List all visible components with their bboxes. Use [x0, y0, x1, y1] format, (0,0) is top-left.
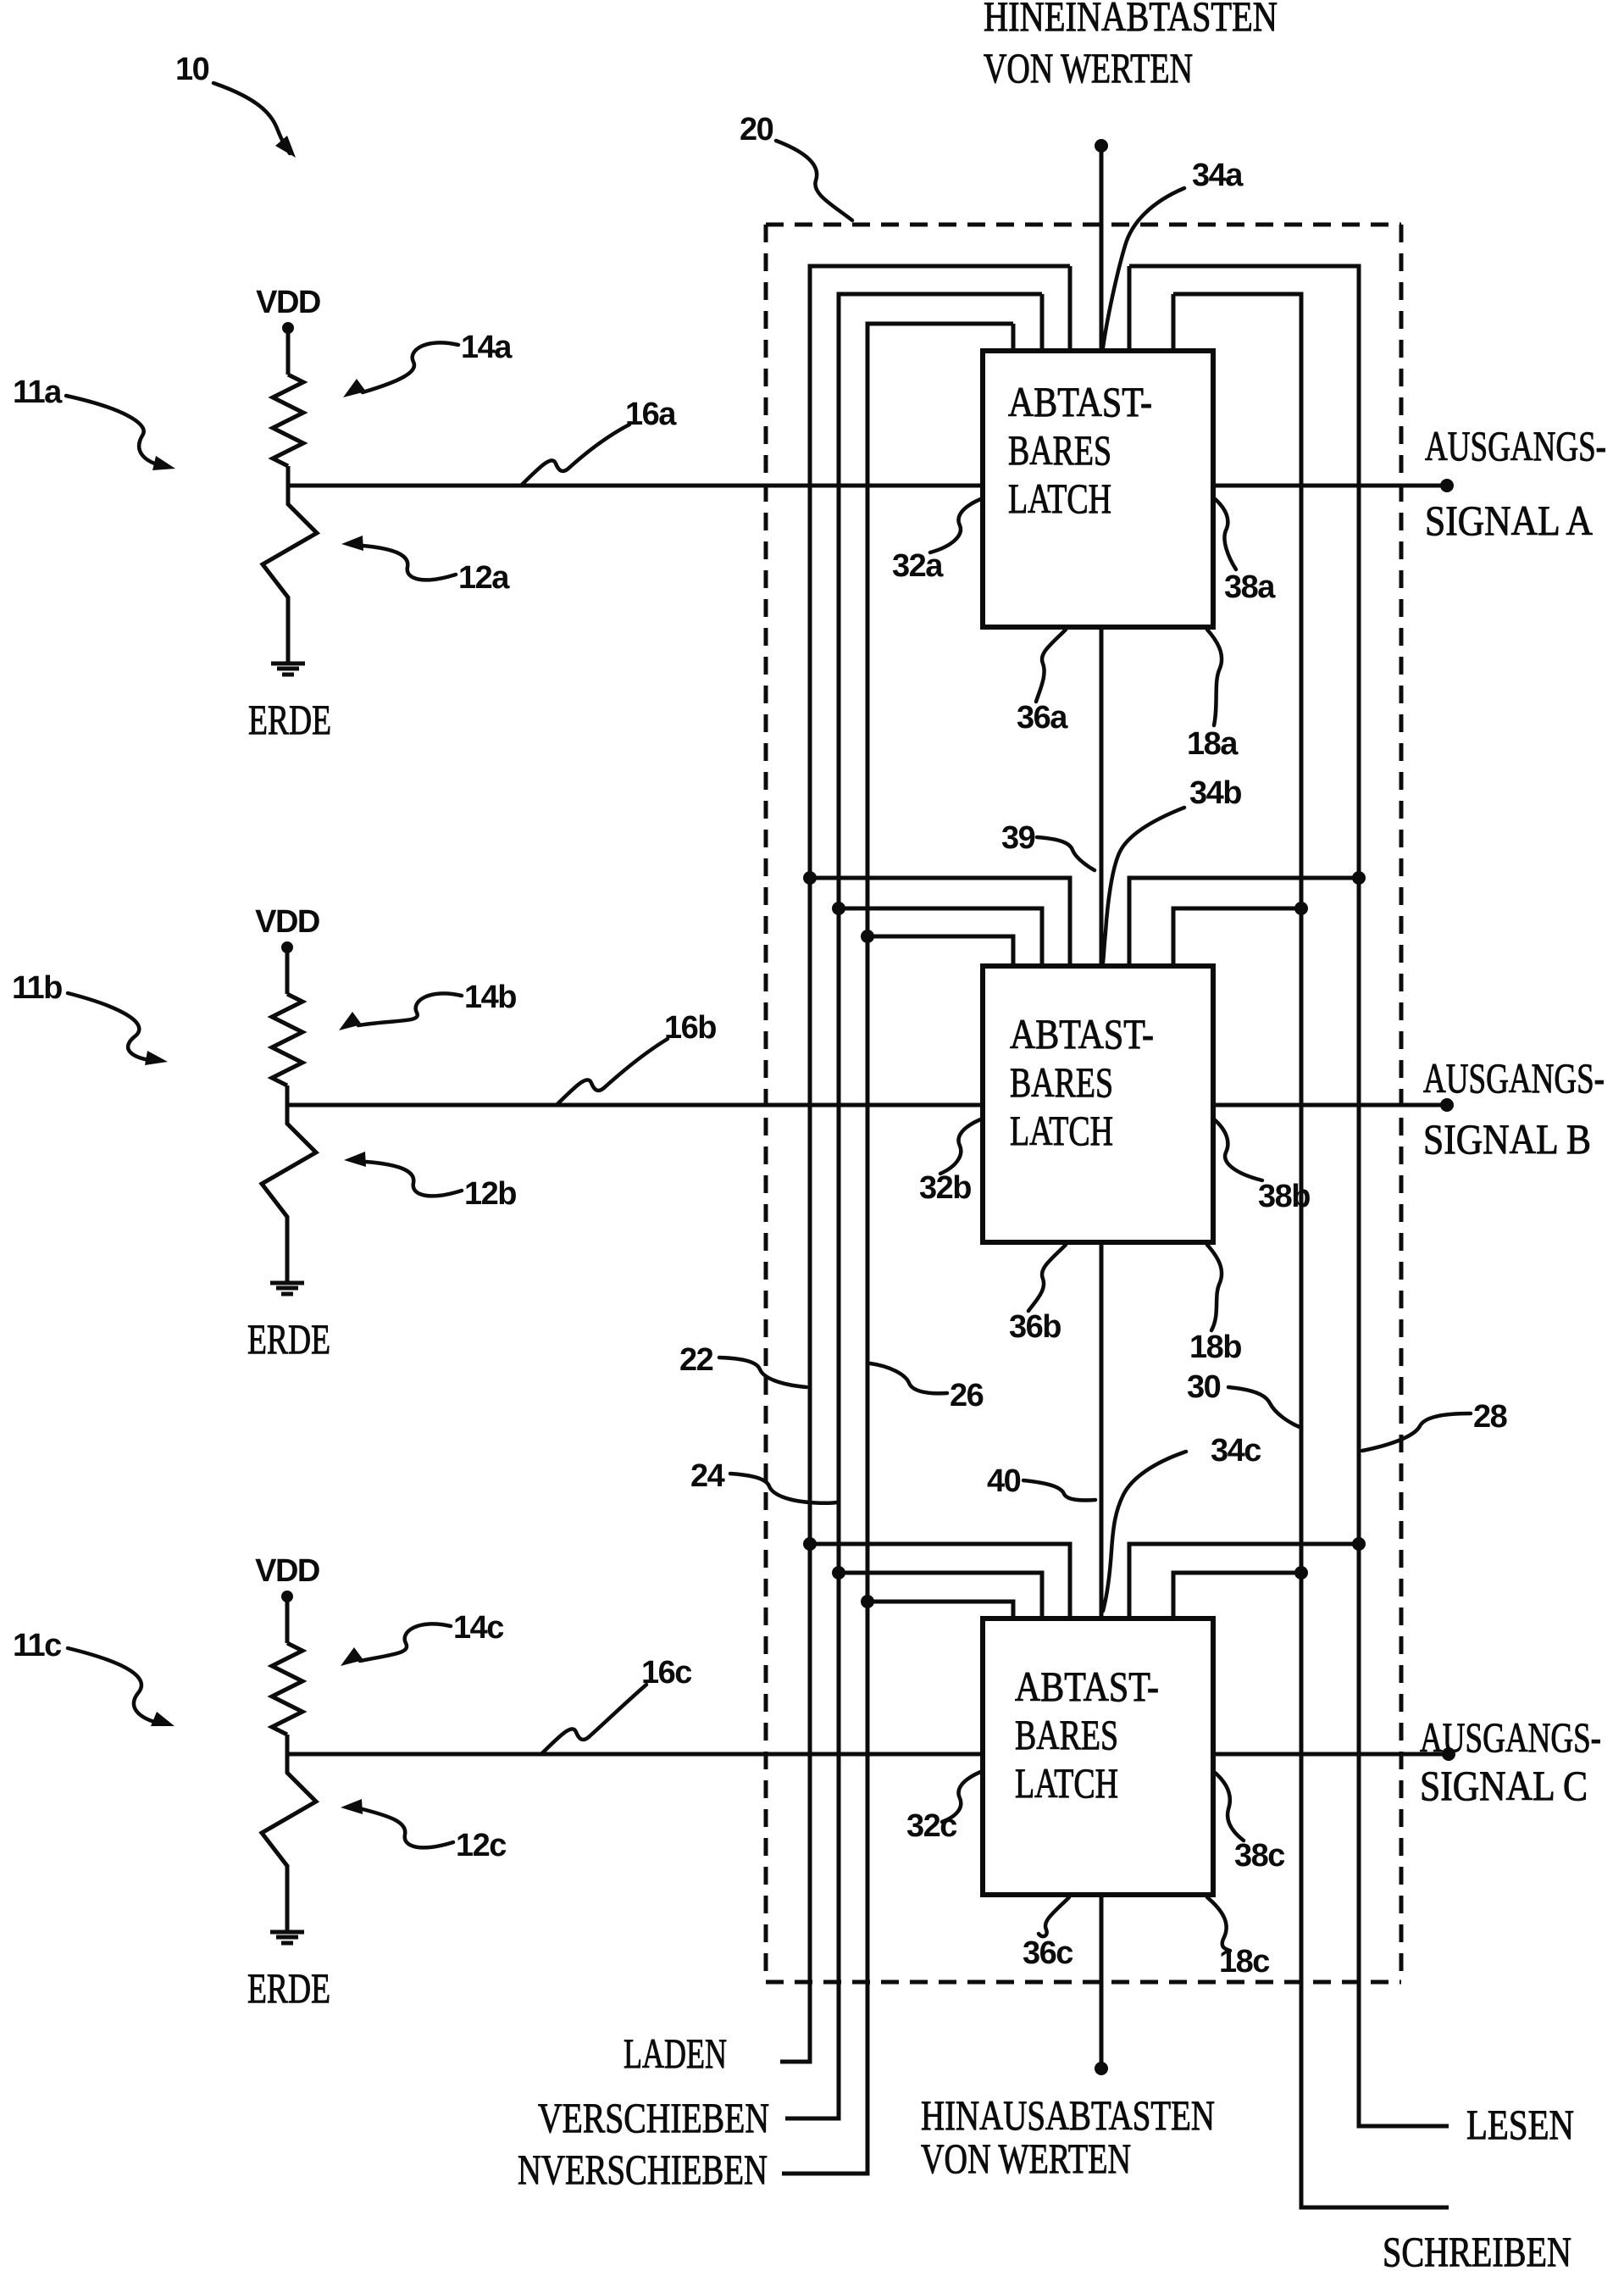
svg-text:VON WERTEN: VON WERTEN: [921, 2135, 1131, 2182]
latch U-A (scannable latch A): [983, 351, 1213, 627]
node 40 scan segment reference: [987, 1463, 1095, 1500]
svg-text:38b: 38b: [1258, 1179, 1310, 1214]
svg-text:LATCH: LATCH: [1010, 1107, 1113, 1154]
wire resistor 14b to node 16b: [285, 1085, 290, 1105]
node 24 VERSCHIEBEN line reference: [690, 1458, 837, 1503]
svg-text:VERSCHIEBEN: VERSCHIEBEN: [538, 2094, 769, 2141]
node 16a sense line reference: [522, 397, 677, 485]
node 18b latch reference: [1189, 1245, 1241, 1365]
ground symbol C: [270, 1932, 304, 1943]
svg-text:14c: 14c: [453, 1610, 504, 1646]
wire pin stub NVERSCHIEBEN to latch A: [1012, 324, 1016, 351]
latch U-C (scannable latch C): [983, 1618, 1213, 1895]
svg-text:14b: 14b: [464, 980, 516, 1015]
node junction SCHREIBEN row B: [1294, 902, 1308, 915]
svg-text:NVERSCHIEBEN: NVERSCHIEBEN: [518, 2146, 768, 2193]
svg-text:ERDE: ERDE: [248, 696, 331, 743]
svg-text:LATCH: LATCH: [1015, 1759, 1118, 1807]
svg-text:HINAUSABTASTEN: HINAUSABTASTEN: [921, 2091, 1215, 2139]
node junction VERSCHIEBEN row C: [832, 1566, 845, 1580]
wire pin 32a stub (LADEN to latch A): [1068, 266, 1073, 351]
svg-text:AUSGANGS-: AUSGANGS-: [1423, 1054, 1605, 1102]
node 38a latch output reference: [1213, 497, 1276, 605]
node 32a latch input reference: [892, 498, 983, 584]
node 12c sense-resistor reference: [341, 1799, 507, 1863]
node 12b sense-resistor reference: [344, 1152, 516, 1212]
svg-text:SIGNAL A: SIGNAL A: [1425, 497, 1593, 544]
svg-text:39: 39: [1001, 820, 1035, 856]
node junction LADEN row C: [803, 1537, 817, 1551]
latch U-B (scannable latch B): [983, 966, 1213, 1242]
node 16b sense line reference: [557, 1010, 716, 1104]
svg-text:34c: 34c: [1211, 1433, 1261, 1469]
divider 11a group: [248, 285, 331, 743]
svg-text:32b: 32b: [919, 1170, 971, 1206]
ground symbol B: [270, 1283, 304, 1294]
svg-text:LATCH: LATCH: [1008, 475, 1111, 522]
node junction SCHREIBEN row C: [1294, 1566, 1308, 1580]
node 11b divider reference: [12, 970, 168, 1065]
node 36a scan output reference: [1017, 630, 1068, 736]
svg-text:12b: 12b: [464, 1176, 516, 1212]
svg-text:32a: 32a: [892, 548, 944, 584]
node 26 NVERSCHIEBEN line reference: [870, 1363, 984, 1413]
node output A terminal: [1440, 479, 1454, 492]
node 20 latch-array reference: [740, 112, 852, 220]
wire 16b sense node B to latch B: [287, 1103, 983, 1108]
svg-text:11c: 11c: [13, 1628, 62, 1663]
wire 16c sense node C to latch C: [287, 1752, 983, 1757]
node VDD terminal C: [281, 1591, 293, 1602]
wire output signal B 38b: [1213, 1103, 1447, 1108]
wire 24 VERSCHIEBEN bus (middle left): [785, 294, 1042, 2118]
svg-text:34b: 34b: [1189, 775, 1241, 811]
svg-text:SCHREIBEN: SCHREIBEN: [1383, 2228, 1571, 2275]
wire 22 LADEN bus (outer left): [780, 266, 1070, 2062]
node 36b scan output reference: [1009, 1245, 1066, 1345]
svg-text:36a: 36a: [1017, 700, 1068, 736]
ground symbol A: [271, 664, 305, 675]
resistor 12b (sense element): [262, 1105, 316, 1281]
svg-text:ABTAST-: ABTAST-: [1015, 1663, 1159, 1710]
wire 28 LESEN bus (outer right): [1129, 266, 1449, 2126]
divider 11c group: [247, 1553, 330, 2012]
node 18a latch reference: [1187, 630, 1239, 762]
wire LADEN row to latch C: [810, 1544, 1070, 1618]
wire 26 NVERSCHIEBEN bus (inner left): [782, 324, 1013, 2174]
svg-text:16c: 16c: [641, 1655, 692, 1691]
svg-text:ABTAST-: ABTAST-: [1008, 378, 1152, 425]
node 34a scan-in reference: [1103, 158, 1244, 347]
svg-text:12c: 12c: [456, 1828, 507, 1863]
svg-text:18b: 18b: [1189, 1330, 1241, 1365]
svg-text:20: 20: [740, 112, 773, 147]
node VDD terminal A: [282, 322, 294, 334]
svg-text:BARES: BARES: [1008, 426, 1111, 474]
svg-text:HINEINABTASTEN: HINEINABTASTEN: [984, 0, 1278, 40]
node junction LESEN row B: [1352, 871, 1366, 885]
svg-text:LADEN: LADEN: [624, 2029, 727, 2077]
node 38c latch output reference: [1213, 1771, 1285, 1874]
svg-text:28: 28: [1473, 1399, 1507, 1435]
node 14c resistor reference: [341, 1610, 504, 1666]
node 10 system reference: [175, 52, 296, 158]
svg-text:VDD: VDD: [255, 904, 319, 940]
node junction NVERSCHIEBEN row B: [861, 930, 874, 943]
node 28 LESEN line reference: [1362, 1399, 1507, 1451]
wire VDD to resistor 14c: [285, 1596, 290, 1643]
svg-text:36c: 36c: [1023, 1935, 1073, 1971]
svg-text:22: 22: [679, 1342, 713, 1378]
wire scan-out 36c: [1100, 1895, 1104, 2068]
wire VERSCHIEBEN row to latch C: [839, 1573, 1042, 1618]
divider 11b group: [247, 904, 330, 1363]
node 38b latch output reference: [1213, 1119, 1310, 1214]
node junction NVERSCHIEBEN row C: [861, 1595, 874, 1608]
node 22 LADEN line reference: [679, 1342, 806, 1387]
svg-text:38a: 38a: [1224, 569, 1276, 605]
svg-text:38c: 38c: [1234, 1838, 1285, 1874]
node 11c divider reference: [13, 1628, 175, 1726]
resistor 14b: [272, 994, 302, 1085]
wire NVERSCHIEBEN row to latch C: [867, 1602, 1013, 1618]
node scan-in terminal: [1095, 139, 1108, 153]
svg-text:10: 10: [175, 52, 209, 87]
node VDD terminal B: [281, 941, 293, 953]
node 30 SCHREIBEN line reference: [1187, 1369, 1300, 1427]
wire LESEN row to latch B: [1129, 878, 1359, 966]
svg-text:ERDE: ERDE: [247, 1315, 330, 1363]
node output B terminal: [1440, 1098, 1454, 1112]
svg-text:12a: 12a: [458, 560, 510, 596]
svg-text:26: 26: [950, 1378, 984, 1413]
wire resistor 14a to node 16a: [286, 466, 291, 486]
svg-text:BARES: BARES: [1015, 1711, 1118, 1758]
node output C terminal: [1442, 1747, 1455, 1761]
wire LESEN row to latch C: [1129, 1544, 1359, 1618]
wire LADEN row to latch B: [810, 878, 1070, 966]
node 32b latch input reference: [919, 1119, 983, 1206]
svg-text:18a: 18a: [1187, 726, 1239, 762]
wire 40 scan B to C: [1100, 1242, 1104, 1618]
node junction VERSCHIEBEN row B: [832, 902, 845, 915]
wire 39 scan A to B: [1100, 627, 1104, 966]
svg-text:SIGNAL C: SIGNAL C: [1420, 1762, 1588, 1809]
wire pin stub SCHREIBEN to latch A: [1172, 294, 1176, 351]
wire NVERSCHIEBEN row to latch B: [867, 936, 1013, 966]
node 16c sense line reference: [542, 1655, 692, 1753]
svg-text:VDD: VDD: [255, 1553, 319, 1589]
node scan-out terminal: [1095, 2062, 1108, 2075]
wire 16a sense node A to latch A: [288, 484, 983, 488]
svg-text:40: 40: [987, 1463, 1021, 1499]
resistor 12c (sense element): [262, 1754, 316, 1930]
node 14a resistor reference: [343, 330, 513, 397]
latch array 20 dashed boundary: [766, 225, 1401, 1982]
wire VDD to resistor 14b: [285, 947, 290, 994]
svg-text:36b: 36b: [1009, 1309, 1061, 1345]
wire output signal A 38a: [1213, 484, 1447, 488]
node 18c latch reference: [1207, 1897, 1270, 1979]
resistor 12a (sense element): [263, 486, 317, 662]
svg-text:ERDE: ERDE: [247, 1964, 330, 2012]
resistor 14a: [273, 375, 303, 466]
svg-text:11a: 11a: [13, 375, 63, 410]
svg-text:11b: 11b: [12, 970, 62, 1006]
wire VERSCHIEBEN row to latch B: [839, 908, 1042, 966]
node 11a divider reference: [13, 375, 175, 470]
svg-text:SIGNAL B: SIGNAL B: [1423, 1115, 1591, 1163]
svg-text:VDD: VDD: [256, 285, 320, 320]
svg-text:VON WERTEN: VON WERTEN: [984, 44, 1193, 92]
svg-text:BARES: BARES: [1010, 1058, 1113, 1106]
svg-text:14a: 14a: [461, 330, 513, 365]
svg-text:24: 24: [690, 1458, 725, 1494]
svg-text:AUSGANGS-: AUSGANGS-: [1425, 422, 1606, 469]
wire output signal C 38c: [1213, 1752, 1449, 1757]
resistor 14c: [272, 1643, 302, 1735]
node 32c latch input reference: [906, 1771, 983, 1844]
svg-text:32c: 32c: [906, 1808, 957, 1844]
wire pin stub VERSCHIEBEN to latch A: [1040, 294, 1045, 351]
node 14b resistor reference: [339, 980, 516, 1030]
wire pin 38a stub (LESEN to latch A): [1128, 266, 1132, 351]
svg-text:16b: 16b: [664, 1010, 716, 1046]
node 34c scan-in reference: [1103, 1433, 1261, 1611]
wire SCHREIBEN row to latch C: [1173, 1573, 1301, 1618]
svg-text:34a: 34a: [1192, 158, 1244, 193]
svg-text:30: 30: [1187, 1369, 1221, 1405]
svg-text:LESEN: LESEN: [1466, 2101, 1574, 2148]
node junction LADEN row B: [803, 871, 817, 885]
node 39 scan segment reference: [1001, 820, 1095, 870]
node 34b scan-in reference: [1103, 775, 1241, 963]
node junction LESEN row C: [1352, 1537, 1366, 1551]
wire VDD to resistor 14a: [286, 328, 291, 375]
node 36c scan output reference: [1023, 1897, 1073, 1971]
wire resistor 14c to node 16c: [285, 1735, 290, 1754]
wire 30 SCHREIBEN bus (inner right): [1173, 294, 1449, 2207]
svg-text:ABTAST-: ABTAST-: [1010, 1010, 1154, 1058]
svg-text:16a: 16a: [625, 397, 677, 432]
node 12a sense-resistor reference: [341, 536, 510, 596]
wire SCHREIBEN row to latch B: [1173, 908, 1301, 966]
wire scan-in 34a: [1100, 146, 1104, 351]
